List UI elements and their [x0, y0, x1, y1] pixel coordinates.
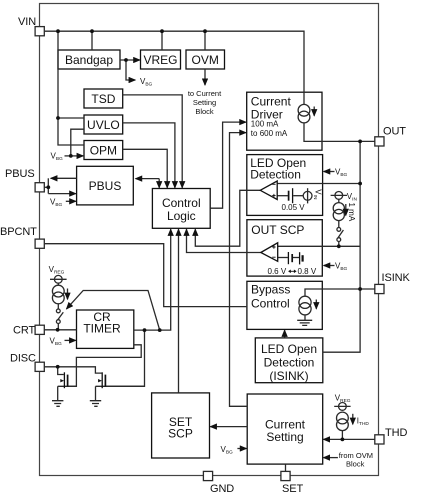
svg-text:VREG: VREG — [335, 393, 351, 404]
svg-text:ITHD: ITHD — [357, 417, 370, 428]
svg-text:BPCNT: BPCNT — [0, 226, 37, 238]
svg-text:(ISINK): (ISINK) — [269, 369, 308, 383]
svg-text:OVM: OVM — [192, 53, 219, 67]
svg-text:1 mA: 1 mA — [347, 203, 356, 222]
svg-text:VBG: VBG — [51, 151, 64, 162]
svg-text:VREG: VREG — [49, 265, 65, 276]
svg-text:Logic: Logic — [167, 209, 196, 223]
svg-text:Control: Control — [162, 196, 201, 210]
svg-text:100 mA: 100 mA — [251, 120, 279, 129]
svg-text:TSD: TSD — [91, 92, 115, 106]
svg-text:OUT: OUT — [383, 126, 406, 138]
svg-text:Setting: Setting — [266, 430, 303, 444]
svg-text:OUT SCP: OUT SCP — [251, 223, 304, 237]
svg-text:VBG: VBG — [140, 77, 153, 88]
svg-text:DISC: DISC — [10, 353, 36, 365]
svg-text:Control: Control — [251, 296, 290, 310]
svg-text:SET: SET — [282, 483, 303, 495]
svg-text:Block: Block — [346, 460, 365, 469]
svg-text:THD: THD — [385, 427, 407, 439]
svg-text:to Current: to Current — [188, 89, 222, 98]
svg-text:0.05 V: 0.05 V — [282, 203, 306, 212]
svg-text:VREG: VREG — [143, 53, 177, 67]
svg-text:Block: Block — [195, 107, 214, 116]
svg-text:OPM: OPM — [90, 144, 117, 158]
svg-text:VBG: VBG — [50, 198, 63, 209]
svg-text:PBUS: PBUS — [5, 168, 35, 180]
svg-text:0.6 V: 0.6 V — [268, 267, 287, 276]
svg-text:Bandgap: Bandgap — [65, 53, 113, 67]
svg-text:CRT: CRT — [13, 325, 35, 337]
svg-text:VBG: VBG — [335, 168, 348, 179]
svg-text:Setting: Setting — [193, 98, 216, 107]
svg-text:VBG: VBG — [221, 445, 234, 456]
svg-text:VIN: VIN — [347, 192, 358, 203]
svg-text:GND: GND — [210, 483, 234, 495]
svg-text:PBUS: PBUS — [89, 179, 122, 193]
svg-text:TIMER: TIMER — [83, 321, 121, 335]
svg-text:Current: Current — [251, 95, 292, 109]
svg-text:VBG: VBG — [335, 262, 348, 273]
svg-text:VBG: VBG — [50, 336, 63, 347]
svg-text:LED Open: LED Open — [261, 342, 317, 356]
svg-text:0.8 V: 0.8 V — [298, 267, 317, 276]
svg-text:ISINK: ISINK — [382, 272, 411, 284]
svg-text:SCP: SCP — [168, 427, 193, 441]
svg-text:UVLO: UVLO — [87, 118, 120, 132]
svg-text:Bypass: Bypass — [251, 283, 290, 297]
svg-text:to 600 mA: to 600 mA — [251, 129, 288, 138]
svg-text:Detection: Detection — [250, 168, 301, 182]
svg-text:VIN: VIN — [18, 16, 36, 28]
svg-text:Detection: Detection — [264, 356, 315, 370]
